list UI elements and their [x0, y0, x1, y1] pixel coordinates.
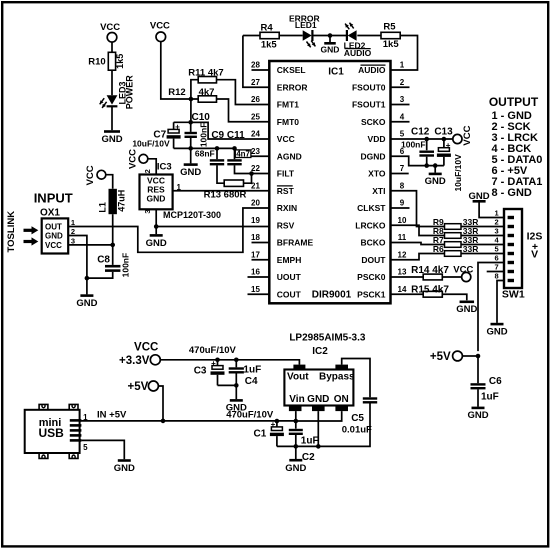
- svg-text:8 - GND: 8 - GND: [492, 187, 532, 199]
- svg-text:470uF/10V: 470uF/10V: [226, 410, 274, 421]
- svg-text:R13 680R: R13 680R: [204, 190, 247, 201]
- svg-text:VCC: VCC: [277, 134, 295, 144]
- svg-text:GND: GND: [114, 463, 135, 474]
- svg-text:1k5: 1k5: [261, 39, 278, 50]
- svg-text:C6: C6: [489, 376, 502, 387]
- svg-text:C1: C1: [254, 429, 267, 440]
- svg-text:GND: GND: [425, 176, 446, 187]
- svg-text:GND: GND: [486, 327, 507, 338]
- svg-text:AGND: AGND: [277, 151, 302, 161]
- svg-text:TOSLINK: TOSLINK: [6, 211, 17, 253]
- svg-text:6: 6: [495, 254, 499, 263]
- svg-text:1: 1: [71, 218, 75, 227]
- svg-text:DOUT: DOUT: [361, 255, 386, 265]
- svg-text:C12: C12: [411, 127, 430, 138]
- svg-text:GND: GND: [307, 394, 329, 405]
- svg-text:GND: GND: [76, 298, 97, 309]
- svg-text:1k5: 1k5: [383, 39, 400, 50]
- svg-text:7: 7: [495, 263, 499, 272]
- svg-text:68nF: 68nF: [195, 148, 215, 158]
- svg-text:DGND: DGND: [360, 151, 385, 161]
- svg-text:9: 9: [400, 199, 405, 208]
- svg-text:24: 24: [251, 130, 260, 139]
- svg-text:R14 4k7: R14 4k7: [411, 265, 449, 276]
- svg-text:23: 23: [251, 147, 260, 156]
- svg-text:C8: C8: [97, 255, 110, 266]
- svg-text:3: 3: [495, 227, 499, 236]
- svg-text:27: 27: [251, 78, 260, 87]
- svg-text:COUT: COUT: [277, 289, 302, 299]
- svg-text:12: 12: [398, 250, 407, 259]
- svg-text:1uF: 1uF: [481, 392, 499, 403]
- svg-text:470uF/10V: 470uF/10V: [189, 345, 237, 356]
- svg-text:3: 3: [400, 95, 405, 104]
- svg-text:10uF/10V: 10uF/10V: [453, 154, 463, 192]
- svg-text:25: 25: [251, 112, 260, 121]
- svg-text:OUTPUT: OUTPUT: [489, 95, 539, 109]
- svg-text:100nF: 100nF: [121, 253, 131, 278]
- svg-text:1: 1: [83, 413, 88, 422]
- svg-text:MCP120T-300: MCP120T-300: [163, 210, 221, 220]
- svg-text:21: 21: [251, 181, 260, 190]
- svg-text:R5: R5: [383, 21, 396, 32]
- svg-text:2: 2: [143, 169, 152, 173]
- svg-text:+5V: +5V: [128, 381, 149, 393]
- svg-text:L1: L1: [98, 202, 108, 213]
- svg-text:VCC: VCC: [85, 165, 96, 185]
- svg-text:Vin: Vin: [289, 394, 304, 405]
- svg-text:1uF: 1uF: [243, 365, 261, 376]
- svg-text:UOUT: UOUT: [277, 272, 302, 282]
- svg-text:AUDIO: AUDIO: [344, 48, 372, 58]
- svg-text:DIR9001: DIR9001: [312, 290, 352, 301]
- svg-text:BFRAME: BFRAME: [277, 238, 314, 248]
- svg-text:VCC: VCC: [134, 342, 158, 354]
- svg-text:PSCK0: PSCK0: [357, 272, 386, 282]
- svg-text:FMT0: FMT0: [277, 117, 299, 127]
- svg-text:SCKO: SCKO: [361, 117, 386, 127]
- svg-text:SW1: SW1: [502, 289, 525, 301]
- svg-text:GND: GND: [321, 45, 340, 55]
- svg-text:R11 4k7: R11 4k7: [188, 67, 223, 78]
- svg-text:100nF: 100nF: [401, 139, 426, 149]
- svg-text:IC3: IC3: [157, 162, 172, 173]
- svg-text:+: +: [211, 359, 216, 368]
- svg-text:1: 1: [495, 209, 499, 218]
- svg-text:28: 28: [251, 61, 260, 70]
- svg-text:10: 10: [398, 216, 407, 225]
- svg-text:C9 C11: C9 C11: [211, 130, 245, 141]
- svg-text:C10: C10: [192, 112, 211, 123]
- svg-text:VDD: VDD: [368, 134, 386, 144]
- svg-text:8: 8: [495, 272, 499, 281]
- svg-text:8: 8: [400, 181, 405, 190]
- svg-text:13: 13: [398, 268, 407, 277]
- svg-text:R10: R10: [88, 57, 105, 68]
- svg-text:1uF: 1uF: [301, 435, 319, 446]
- svg-text:FILT: FILT: [277, 169, 295, 179]
- svg-text:LRCKO: LRCKO: [355, 220, 386, 230]
- svg-text:2: 2: [495, 218, 499, 227]
- svg-text:AUDIO: AUDIO: [358, 65, 386, 75]
- svg-text:+: +: [446, 141, 451, 150]
- svg-text:19: 19: [251, 216, 260, 225]
- svg-text:XTO: XTO: [368, 169, 386, 179]
- svg-text:OX1: OX1: [40, 207, 60, 218]
- svg-text:BCKO: BCKO: [360, 238, 385, 248]
- svg-text:100nF: 100nF: [198, 123, 208, 148]
- svg-text:INPUT: INPUT: [34, 191, 73, 206]
- svg-text:+5V: +5V: [430, 351, 451, 363]
- svg-text:R6: R6: [433, 244, 444, 254]
- svg-text:+: +: [175, 123, 180, 132]
- svg-text:VCC: VCC: [462, 125, 473, 145]
- svg-text:14: 14: [398, 285, 407, 294]
- svg-text:4n7: 4n7: [236, 150, 250, 159]
- svg-text:4k7: 4k7: [199, 87, 215, 98]
- svg-text:18: 18: [251, 233, 260, 242]
- svg-text:10uF/10V: 10uF/10V: [132, 139, 170, 149]
- svg-text:FMT1: FMT1: [277, 100, 299, 110]
- svg-text:POWER: POWER: [124, 75, 134, 110]
- svg-text:V: V: [531, 249, 538, 261]
- svg-text:RXIN: RXIN: [277, 203, 297, 213]
- svg-text:RSV: RSV: [277, 220, 295, 230]
- svg-text:C3: C3: [194, 366, 207, 377]
- svg-text:USB: USB: [39, 426, 65, 440]
- svg-text:Vout: Vout: [287, 372, 309, 383]
- svg-text:5: 5: [495, 245, 499, 254]
- svg-text:33R: 33R: [463, 244, 479, 254]
- svg-text:R15 4k7: R15 4k7: [411, 285, 449, 296]
- svg-text:1: 1: [400, 61, 405, 70]
- svg-text:FSOUT1: FSOUT1: [352, 100, 386, 110]
- svg-text:PSCK1: PSCK1: [357, 289, 386, 299]
- svg-text:GND: GND: [146, 238, 167, 249]
- svg-text:1k5: 1k5: [115, 54, 125, 69]
- svg-text:GND: GND: [285, 463, 306, 474]
- svg-text:26: 26: [251, 95, 260, 104]
- svg-text:5: 5: [400, 130, 405, 139]
- svg-text:LP2985AIM5-3.3: LP2985AIM5-3.3: [289, 333, 366, 344]
- svg-text:+3.3V: +3.3V: [119, 355, 150, 367]
- svg-text:GND: GND: [101, 134, 122, 145]
- svg-text:20: 20: [251, 199, 260, 208]
- svg-text:ERROR: ERROR: [277, 82, 308, 92]
- svg-text:C5: C5: [351, 413, 364, 424]
- svg-text:GND: GND: [147, 194, 166, 204]
- svg-text:3: 3: [143, 209, 152, 213]
- svg-text:IN +5V: IN +5V: [97, 410, 127, 421]
- svg-text:2: 2: [400, 78, 405, 87]
- svg-text:GND: GND: [467, 410, 488, 421]
- svg-text:47uH: 47uH: [117, 190, 127, 212]
- svg-text:GND: GND: [180, 167, 201, 178]
- svg-text:EMPH: EMPH: [277, 255, 302, 265]
- svg-text:VCC: VCC: [127, 149, 138, 169]
- svg-text:RST: RST: [277, 186, 295, 196]
- svg-text:IC2: IC2: [312, 346, 328, 357]
- svg-text:C2: C2: [302, 452, 315, 463]
- svg-text:R12: R12: [168, 87, 185, 98]
- svg-text:GND: GND: [45, 231, 63, 240]
- svg-text:VCC: VCC: [150, 21, 170, 32]
- svg-text:Bypass: Bypass: [319, 372, 355, 383]
- svg-text:5: 5: [83, 443, 88, 452]
- svg-text:IC1: IC1: [328, 67, 344, 78]
- svg-text:FSOUT0: FSOUT0: [352, 82, 386, 92]
- svg-text:16: 16: [251, 268, 260, 277]
- svg-text:VCC: VCC: [100, 22, 120, 33]
- svg-text:17: 17: [251, 250, 260, 259]
- svg-text:1: 1: [177, 183, 182, 192]
- svg-text:ON: ON: [334, 394, 349, 405]
- svg-text:0.01uF: 0.01uF: [342, 424, 372, 435]
- svg-text:XTI: XTI: [372, 186, 385, 196]
- svg-text:LED1: LED1: [295, 20, 317, 30]
- svg-text:15: 15: [251, 285, 260, 294]
- svg-text:11: 11: [398, 233, 407, 242]
- svg-text:4: 4: [400, 112, 405, 121]
- svg-text:GND: GND: [456, 304, 477, 315]
- svg-text:R4: R4: [261, 22, 274, 33]
- svg-text:7: 7: [400, 164, 405, 173]
- svg-text:C4: C4: [245, 376, 258, 387]
- svg-text:OUT: OUT: [45, 222, 62, 231]
- svg-text:VCC: VCC: [45, 241, 62, 250]
- svg-text:CLKST: CLKST: [357, 203, 386, 213]
- svg-text:C13: C13: [434, 127, 453, 138]
- svg-text:CKSEL: CKSEL: [277, 65, 306, 75]
